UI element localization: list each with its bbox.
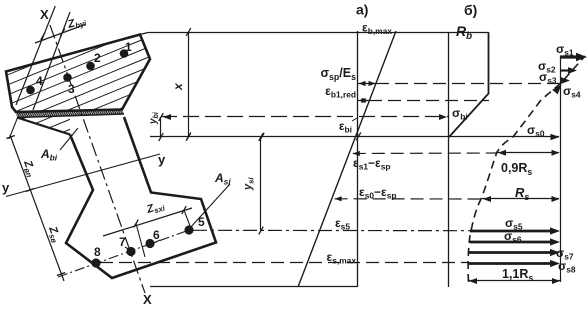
rebar dot row 5 <box>184 225 193 234</box>
level line sigma_sp/Es (dashed) <box>358 81 562 86</box>
level line row 8 (dashed) <box>100 262 468 264</box>
extension line from fiber strip <box>9 114 19 139</box>
level line fibre bi (long dash) <box>161 114 449 120</box>
dimension line Z (to centroid axis) <box>6 135 65 281</box>
stress bar sigma_s7 <box>468 249 560 256</box>
label y left <box>2 180 10 195</box>
level line row s1 (dashed) <box>353 151 497 156</box>
label 5 <box>198 215 205 229</box>
top fibre level line <box>140 33 489 35</box>
label 4 <box>36 74 43 88</box>
label y right <box>158 152 166 167</box>
label y_bi <box>148 111 160 125</box>
label Z_sp <box>45 224 63 245</box>
centreline through bottom rebar row <box>58 229 192 277</box>
dimension line Z_sxi <box>103 206 192 257</box>
stress arrow sigma_s2 <box>538 59 577 75</box>
stress arrow sigma_s4 <box>552 84 581 100</box>
label eps_s5 <box>335 216 350 232</box>
label eps_s1-eps_sp <box>353 156 391 172</box>
label Z_vp <box>20 158 39 179</box>
label sigma_s6 <box>504 229 522 245</box>
section axis y-y <box>6 154 160 197</box>
svg-text:б): б) <box>464 2 477 18</box>
label 7 <box>119 235 130 250</box>
label Z_sxi <box>144 199 166 217</box>
label eps_s0-eps_sp <box>359 185 397 201</box>
rebar dot row 6 <box>145 239 154 248</box>
label y_si <box>242 177 255 191</box>
projection line parallel (row direction) <box>33 12 70 110</box>
stress diagram axis <box>448 33 450 288</box>
label 1.1Rs <box>502 267 533 283</box>
level line row 5 (dash-dot) <box>193 229 470 231</box>
label Rs <box>515 185 529 202</box>
label a) <box>356 2 368 18</box>
label b) <box>464 2 477 18</box>
label 0.9Rs <box>501 161 532 177</box>
svg-text:X: X <box>40 7 49 22</box>
section axis X-X <box>50 25 145 293</box>
label eps_s,max <box>327 250 357 266</box>
label sigma_sp/Es <box>320 66 356 82</box>
dimension line Z_byi <box>35 25 85 44</box>
label X bottom <box>143 292 152 307</box>
cross-hatched strip: concrete fiber layer i (A_bi) <box>15 109 130 118</box>
svg-text:6: 6 <box>153 228 160 242</box>
strain distribution line <box>298 31 396 287</box>
strain diagram axis <box>357 31 359 287</box>
axis line of steel stresses <box>560 56 562 282</box>
label sigma_s8 <box>558 259 576 275</box>
dimension y_si <box>259 133 263 234</box>
stress bar sigma_s6 <box>470 238 560 245</box>
label Z_byi <box>66 14 89 32</box>
beam cross-section: web and bottom flange outline <box>66 117 216 278</box>
label A_bi with leader <box>40 128 78 163</box>
concrete stress block <box>449 33 489 138</box>
rebar dot row 1 <box>120 49 129 58</box>
label sigma_bi <box>452 106 468 122</box>
stress bar sigma_s8 <box>468 260 560 267</box>
svg-text:y: y <box>158 152 166 167</box>
label 8 <box>94 245 101 259</box>
svg-text:2: 2 <box>94 51 101 65</box>
stress bar sigma_s5 <box>470 227 560 234</box>
label sigma_s0 <box>527 123 545 139</box>
label X top <box>40 7 49 22</box>
label x <box>171 82 185 91</box>
rebar dot row 8 <box>91 258 100 267</box>
svg-text:X: X <box>143 292 152 307</box>
stress arrow sigma_s1 <box>556 42 587 61</box>
label sigma_s7 <box>556 246 574 262</box>
beam cross-section: top flange outline (hatched compression flange) <box>6 35 150 113</box>
svg-text:7: 7 <box>119 235 126 249</box>
steel stress curve (dashed) <box>468 56 585 282</box>
rebar dot row 2 <box>86 62 95 71</box>
bottom fibre level line <box>150 286 358 288</box>
line 0.9Rs <box>497 150 560 156</box>
svg-text:5: 5 <box>198 215 205 229</box>
svg-text:8: 8 <box>94 245 101 259</box>
label eps_b1,red <box>325 84 356 100</box>
neutral axis level line <box>150 133 560 141</box>
top flange hatching <box>0 0 170 208</box>
level line row s0 (dashed) <box>335 196 482 201</box>
dimension line 1.1Rs <box>468 278 561 284</box>
rebar dot row 7 <box>126 247 135 256</box>
svg-text:1: 1 <box>125 40 132 54</box>
svg-text:x: x <box>171 82 185 91</box>
label 2 <box>94 51 101 65</box>
label A_sj with leader <box>190 171 231 228</box>
label R_b <box>456 23 472 42</box>
rebar dot row 3 <box>63 73 72 82</box>
level line eps_b1,red (dashed) <box>358 98 490 103</box>
rebar dot row 4 <box>26 86 35 95</box>
label eps_bi <box>339 118 358 135</box>
label 1 <box>125 40 132 54</box>
flange underside taper edge <box>0 0 170 208</box>
dimension y_bi <box>159 113 163 141</box>
dimension x (compressed zone depth) <box>186 28 191 140</box>
label 3 <box>68 82 75 96</box>
label sigma_s5 <box>505 216 523 232</box>
projection line through section corner (top left) <box>16 6 55 105</box>
line Rs <box>482 196 560 202</box>
stress arrow sigma_s3 <box>539 70 570 86</box>
svg-text:a): a) <box>356 2 368 18</box>
label eps_b,max <box>362 21 392 37</box>
svg-text:y: y <box>2 180 10 195</box>
label 6 <box>152 228 160 244</box>
